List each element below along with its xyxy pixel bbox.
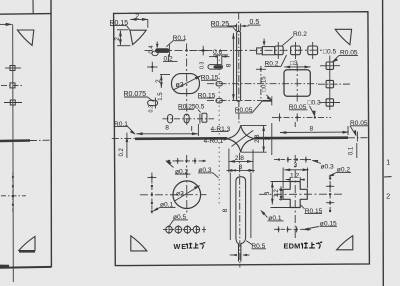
- svg-text:R0.5: R0.5: [251, 243, 265, 250]
- leader R0.2 top: [282, 36, 294, 46]
- svg-text:1.2: 1.2: [274, 188, 280, 197]
- svg-text:R0.2: R0.2: [265, 61, 279, 68]
- svg-text:R0.075: R0.075: [124, 91, 147, 98]
- dim square3: [284, 66, 310, 68]
- svg-text:3: 3: [294, 162, 298, 169]
- left sheet vertical line x33: [32, 0, 34, 14]
- label underline: [178, 108, 194, 110]
- dim 0.5 top: [228, 25, 237, 27]
- svg-text:ø0.3: ø0.3: [198, 167, 212, 174]
- svg-text:R0.1: R0.1: [114, 121, 128, 128]
- svg-text:1.2: 1.2: [290, 173, 299, 180]
- dim 2 horizontal: [130, 18, 148, 20]
- dotted column x152: [151, 173, 153, 214]
- underline R0.15 #2 + leader: [198, 97, 215, 99]
- dim 0.4: [156, 42, 158, 48]
- svg-text:R0.15: R0.15: [305, 208, 323, 215]
- leader phi0.3 right: [311, 160, 318, 163]
- label 4-R0.1 leader: [224, 139, 228, 140]
- svg-text:2: 2: [135, 14, 139, 21]
- vertical oval 1: [168, 115, 173, 123]
- centerline y100.6: [207, 100, 262, 102]
- left sheet bottom border: [0, 266, 51, 269]
- 0.2 underline: [163, 60, 178, 62]
- vertical centerline x186.5: [186, 44, 188, 126]
- rotated square0.15 dim column: [260, 66, 262, 100]
- small rect feature: [202, 113, 207, 122]
- crosshair: [147, 66, 158, 68]
- left sheet top border: [0, 13, 51, 16]
- left sheet right frame: [50, 0, 52, 267]
- svg-text:0.2: 0.2: [119, 147, 125, 156]
- dim 3 below star: [227, 169, 255, 171]
- svg-text:2.8: 2.8: [235, 155, 244, 162]
- tick right of slot: [168, 44, 170, 56]
- sheet frame vertical right: [382, 0, 385, 286]
- left sheet dotted centerline column: [12, 176, 15, 206]
- 0.1 tick right: [356, 143, 358, 158]
- phi0.1 leader: [160, 206, 176, 208]
- svg-text:□0.5: □0.5: [323, 48, 336, 55]
- svg-text:R0.15: R0.15: [198, 92, 216, 99]
- svg-text:0.5: 0.5: [250, 19, 260, 26]
- top-right triangle: [335, 29, 351, 44]
- svg-text:0.1: 0.1: [349, 146, 355, 155]
- R0.05 under slot: [235, 112, 252, 114]
- star diagonal: [232, 130, 254, 146]
- svg-text:EDM: EDM: [284, 242, 301, 251]
- right side star dims: [241, 124, 266, 126]
- svg-text:0.3: 0.3: [199, 62, 205, 70]
- crosshair at 203,50.5: [199, 50, 209, 52]
- left sheet bottom triangle: [19, 236, 35, 250]
- svg-text:R0.2: R0.2: [293, 31, 307, 38]
- svg-text:R0.05: R0.05: [350, 120, 368, 127]
- oval 2: [216, 99, 222, 103]
- svg-text:0.5: 0.5: [195, 104, 204, 111]
- svg-text:2: 2: [386, 193, 390, 200]
- svg-text:R0.05: R0.05: [289, 104, 307, 111]
- left sheet dimension arrow at top: [0, 23, 12, 25]
- svg-text:0.6: 0.6: [213, 49, 222, 56]
- zone tick: [384, 176, 392, 178]
- svg-text:ø3: ø3: [176, 82, 184, 89]
- square 2: [291, 46, 301, 55]
- R0.15 leader bottom: [305, 213, 323, 215]
- dim 8 vertical: [232, 33, 234, 100]
- filled mini slot: [155, 48, 170, 53]
- centerline of slot: [238, 13, 240, 125]
- left dims of cross: [271, 182, 273, 205]
- svg-text:ø0.3: ø0.3: [321, 164, 335, 171]
- left sheet thick mid edge: [0, 139, 30, 142]
- svg-text:R0.05: R0.05: [235, 107, 253, 114]
- top width dim arrows: [231, 169, 236, 171]
- svg-text:R0.15: R0.15: [110, 20, 129, 27]
- circle centerlines: [186, 155, 188, 214]
- square 1: [275, 46, 284, 55]
- svg-text:□3: □3: [290, 60, 298, 67]
- square 3: [308, 46, 318, 55]
- svg-text:4-R1.3: 4-R1.3: [211, 126, 231, 133]
- svg-text:4-R0.1: 4-R0.1: [204, 138, 224, 145]
- mini slot 2: [148, 100, 158, 105]
- centerline mid left: [112, 137, 136, 139]
- dotted col x330: [329, 175, 331, 214]
- leader phi0.2 right: [329, 172, 336, 176]
- slot outline: [237, 31, 241, 101]
- dotted row y161: [166, 160, 206, 162]
- svg-text:8: 8: [165, 124, 169, 131]
- ext lines: [229, 173, 231, 241]
- R0.05 label line: [350, 125, 369, 127]
- vertical oval 2: [184, 114, 189, 123]
- phi0.3 underline: [198, 172, 213, 174]
- leader R0.075: [124, 96, 148, 98]
- leader R0.05 top right: [339, 54, 358, 56]
- svg-text:0.3: 0.3: [149, 105, 155, 113]
- svg-text:R0.25: R0.25: [211, 21, 230, 28]
- dim 8 left: [136, 133, 198, 135]
- svg-text:2.8: 2.8: [255, 134, 261, 143]
- leader phi0.2: [165, 160, 171, 164]
- svg-text:8: 8: [226, 63, 233, 67]
- cross centerlines: [294, 122, 296, 127]
- svg-text:ø0.5: ø0.5: [173, 214, 187, 221]
- svg-text:R0.25: R0.25: [178, 103, 196, 110]
- vertical dotted line x219: [218, 55, 220, 205]
- oval 1: [216, 82, 222, 86]
- ext horizontals left of cross: [271, 181, 291, 183]
- svg-text:□0.3: □0.3: [308, 99, 321, 106]
- dim 1.2 above cross: [286, 179, 290, 181]
- svg-text:ø0.1: ø0.1: [268, 215, 282, 222]
- leader R0.25: [211, 26, 233, 28]
- bottom width dim arrows: [230, 254, 237, 256]
- svg-text:0.4: 0.4: [149, 45, 155, 54]
- EDMげ: [316, 242, 322, 249]
- left sheet square 1: [10, 66, 15, 71]
- left sheet long vertical dim line: [12, 24, 15, 282]
- svg-text:□0.15: □0.15: [262, 76, 268, 92]
- svg-text:R0.15: R0.15: [201, 75, 219, 82]
- dots row right y159.6: [274, 159, 311, 161]
- slot body: [172, 74, 200, 94]
- svg-text:WE: WE: [174, 242, 188, 251]
- ext lines below star: [228, 149, 230, 173]
- dim 2.8 below star: [229, 160, 253, 162]
- svg-text:8: 8: [222, 208, 229, 212]
- thick slot line left segment: [135, 137, 227, 140]
- ext tick right: [356, 132, 358, 142]
- left sheet square 2: [10, 83, 15, 88]
- triangle relief top-left: [130, 30, 146, 44]
- dim 3 above cross: [284, 169, 308, 171]
- svg-text:1: 1: [386, 159, 390, 166]
- leader R0.2 bottom: [265, 65, 282, 67]
- svg-text:ø0.2: ø0.2: [175, 168, 189, 175]
- small stadium under 0.6: [208, 65, 223, 70]
- svg-text:3: 3: [239, 164, 243, 171]
- dim 0.6: [213, 54, 228, 56]
- EDM仕: [301, 242, 308, 249]
- underline R0.15 #1 + leader: [201, 79, 217, 81]
- left sheet square 3: [10, 100, 15, 105]
- leader R0.15: [110, 25, 127, 27]
- circle phi3: [173, 181, 201, 209]
- kanji approximations 仕上げ after WE: [186, 242, 322, 249]
- main drawing border: [114, 12, 370, 266]
- leader R0.1: [173, 40, 185, 42]
- svg-text:2: 2: [114, 37, 121, 41]
- centerline through ovals: [163, 118, 215, 120]
- leader R0.1 left: [114, 126, 128, 128]
- svg-text:ø0.15: ø0.15: [320, 220, 337, 227]
- stub + bar: [257, 48, 263, 54]
- down arrow onto bar: [263, 39, 265, 42]
- left sheet top triangle: [17, 30, 33, 45]
- circle diagonal arrow: [175, 186, 199, 201]
- svg-text:ø0.1: ø0.1: [160, 202, 174, 209]
- svg-text:1.5: 1.5: [158, 92, 164, 101]
- svg-text:R0.05: R0.05: [340, 50, 358, 57]
- dim 2 vertical: [119, 30, 121, 45]
- phi0.5 label: [173, 219, 188, 221]
- svg-text:8: 8: [310, 125, 314, 132]
- svg-text:2: 2: [155, 79, 162, 83]
- centerline right of thick line: [348, 137, 369, 139]
- svg-text:0.2: 0.2: [164, 56, 173, 63]
- slot centerline: [239, 153, 241, 268]
- WEげ: [200, 242, 206, 248]
- R0.5 leader: [246, 241, 252, 245]
- svg-text:ø3: ø3: [176, 190, 184, 197]
- WE上: [193, 243, 198, 248]
- horizontal centerline y50.5: [145, 49, 323, 51]
- centerline y83.7: [207, 83, 317, 85]
- dim 0.5 top ext ticks: [236, 24, 238, 32]
- diagonal with arrow: [174, 76, 200, 89]
- svg-text:ø0.2: ø0.2: [337, 166, 351, 173]
- phi0.1 tail label: [268, 220, 284, 222]
- dim 2 vertical left: [160, 75, 162, 89]
- ext line x126.9: [126, 133, 128, 158]
- svg-text:R0.1: R0.1: [173, 35, 187, 42]
- star outline: [227, 125, 255, 152]
- ext verticals above cross: [282, 168, 284, 189]
- label 4-R1.3 leaderline: [211, 131, 229, 133]
- EDM上: [309, 242, 315, 248]
- WE仕: [186, 243, 192, 249]
